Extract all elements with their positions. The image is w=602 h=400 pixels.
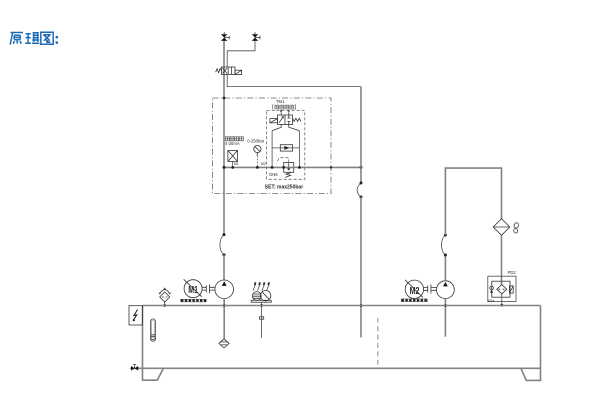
coupling M2-P2 <box>424 284 437 293</box>
solenoid unloading valve SV1 <box>216 67 242 75</box>
motor M1 base (hatched) <box>181 299 207 302</box>
wire: unload valve outlet to return <box>227 74 361 86</box>
motor M2 base (hatched) <box>401 299 427 302</box>
tank baffle (dashed) <box>377 318 379 366</box>
pressure gauge PG <box>254 145 261 167</box>
wire: filter downpipe into tank <box>261 302 263 338</box>
wire: right loop line <box>298 131 300 168</box>
svg-text:0-250bar: 0-250bar <box>247 138 264 143</box>
title 原理图: (drawn strokes, blue) <box>10 32 58 44</box>
relief valve RV <box>276 158 294 178</box>
wire: P2 riser (lower) <box>444 255 446 281</box>
air filter circle <box>260 291 270 301</box>
hose (flexible) on return line <box>357 183 361 197</box>
wire: cooler to PD2 filter <box>501 235 503 284</box>
shutoff test valve V1 (top left bowtie) <box>221 32 229 41</box>
wire: return line to tank (upper) <box>360 87 362 183</box>
pressure transmitter PT <box>228 150 238 167</box>
svg-text:DN6: DN6 <box>269 172 278 177</box>
level gauge LG <box>151 319 156 341</box>
wire: P2 riser (upper) + top loop to cooler <box>445 168 501 235</box>
tank outline <box>130 306 541 381</box>
svg-text:4-20mA: 4-20mA <box>225 141 240 146</box>
junction dots at tank top <box>223 304 226 307</box>
wire: main pump P1 riser (lower) <box>223 255 225 280</box>
label 系统压力 (tiny cjk strokes) <box>225 137 243 141</box>
base plate <box>251 300 271 302</box>
suction strainer S1 <box>219 339 229 348</box>
wire: main pump P1 riser (upper) <box>223 41 225 235</box>
svg-text:SET: max250bar: SET: max250bar <box>265 184 303 190</box>
svg-text:M1: M1 <box>234 162 239 166</box>
check/orifice cartridge CV <box>272 145 299 151</box>
svg-text:M1: M1 <box>188 284 198 296</box>
svg-text:M2: M2 <box>261 162 266 166</box>
return filter / filler unit RF <box>251 282 271 302</box>
valve group dashed box <box>267 111 305 180</box>
wire: unload branch from V2 <box>227 41 255 67</box>
pump P1 <box>215 280 234 299</box>
hose (flexible) on P1 riser <box>220 235 224 255</box>
pressure filter PD2 assembly <box>488 276 516 301</box>
svg-text:PD2: PD2 <box>508 270 517 275</box>
electric heater EH (lightning box) <box>129 306 143 325</box>
manifold block border (dash-dot) <box>213 98 332 194</box>
wire: P bus line in manifold <box>224 166 361 168</box>
coupling M1-P1 <box>202 284 215 293</box>
motor M1 <box>184 279 202 297</box>
shutoff test valve V2 (top right bowtie) <box>252 32 260 41</box>
svg-text:TM1: TM1 <box>276 99 285 104</box>
svg-text:M2a: M2a <box>488 299 495 303</box>
wire: PD2 outlet to tank <box>501 294 503 306</box>
junction dots on bus <box>223 166 226 169</box>
pump P2 <box>437 281 455 299</box>
motor M2 <box>405 280 424 299</box>
wire: left loop line <box>271 131 273 168</box>
wire: P1 suction <box>223 299 225 339</box>
label [卸载自动] (tiny cjk strokes) <box>273 105 296 109</box>
air cooler AC <box>493 219 519 236</box>
drain valve DV <box>131 365 138 371</box>
hose (flexible) on P2 riser <box>442 235 446 255</box>
wire: P2 suction into tank <box>444 299 446 337</box>
breather flags <box>253 285 269 290</box>
unloading pilot valve UV (horizontal, in dashed box) <box>270 110 301 131</box>
junction: riser enters manifold <box>223 97 226 100</box>
filler strainer circle <box>252 292 261 301</box>
air breather AB <box>159 288 170 305</box>
wire: return line to tank (lower) <box>360 197 362 338</box>
svg-text:M2: M2 <box>410 285 420 297</box>
